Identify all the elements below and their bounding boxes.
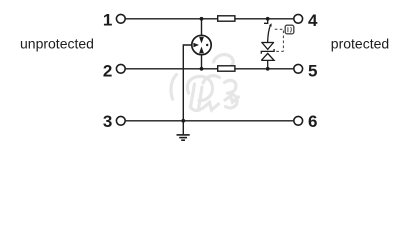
svg-text:1: 1 xyxy=(103,10,112,29)
svg-text:2: 2 xyxy=(103,62,112,81)
svg-text:6: 6 xyxy=(308,112,317,131)
svg-text:5: 5 xyxy=(308,62,317,81)
svg-text:3: 3 xyxy=(103,112,112,131)
svg-text:4: 4 xyxy=(308,11,318,30)
svg-text:unprotected: unprotected xyxy=(20,36,94,52)
svg-text:protected: protected xyxy=(331,36,389,52)
